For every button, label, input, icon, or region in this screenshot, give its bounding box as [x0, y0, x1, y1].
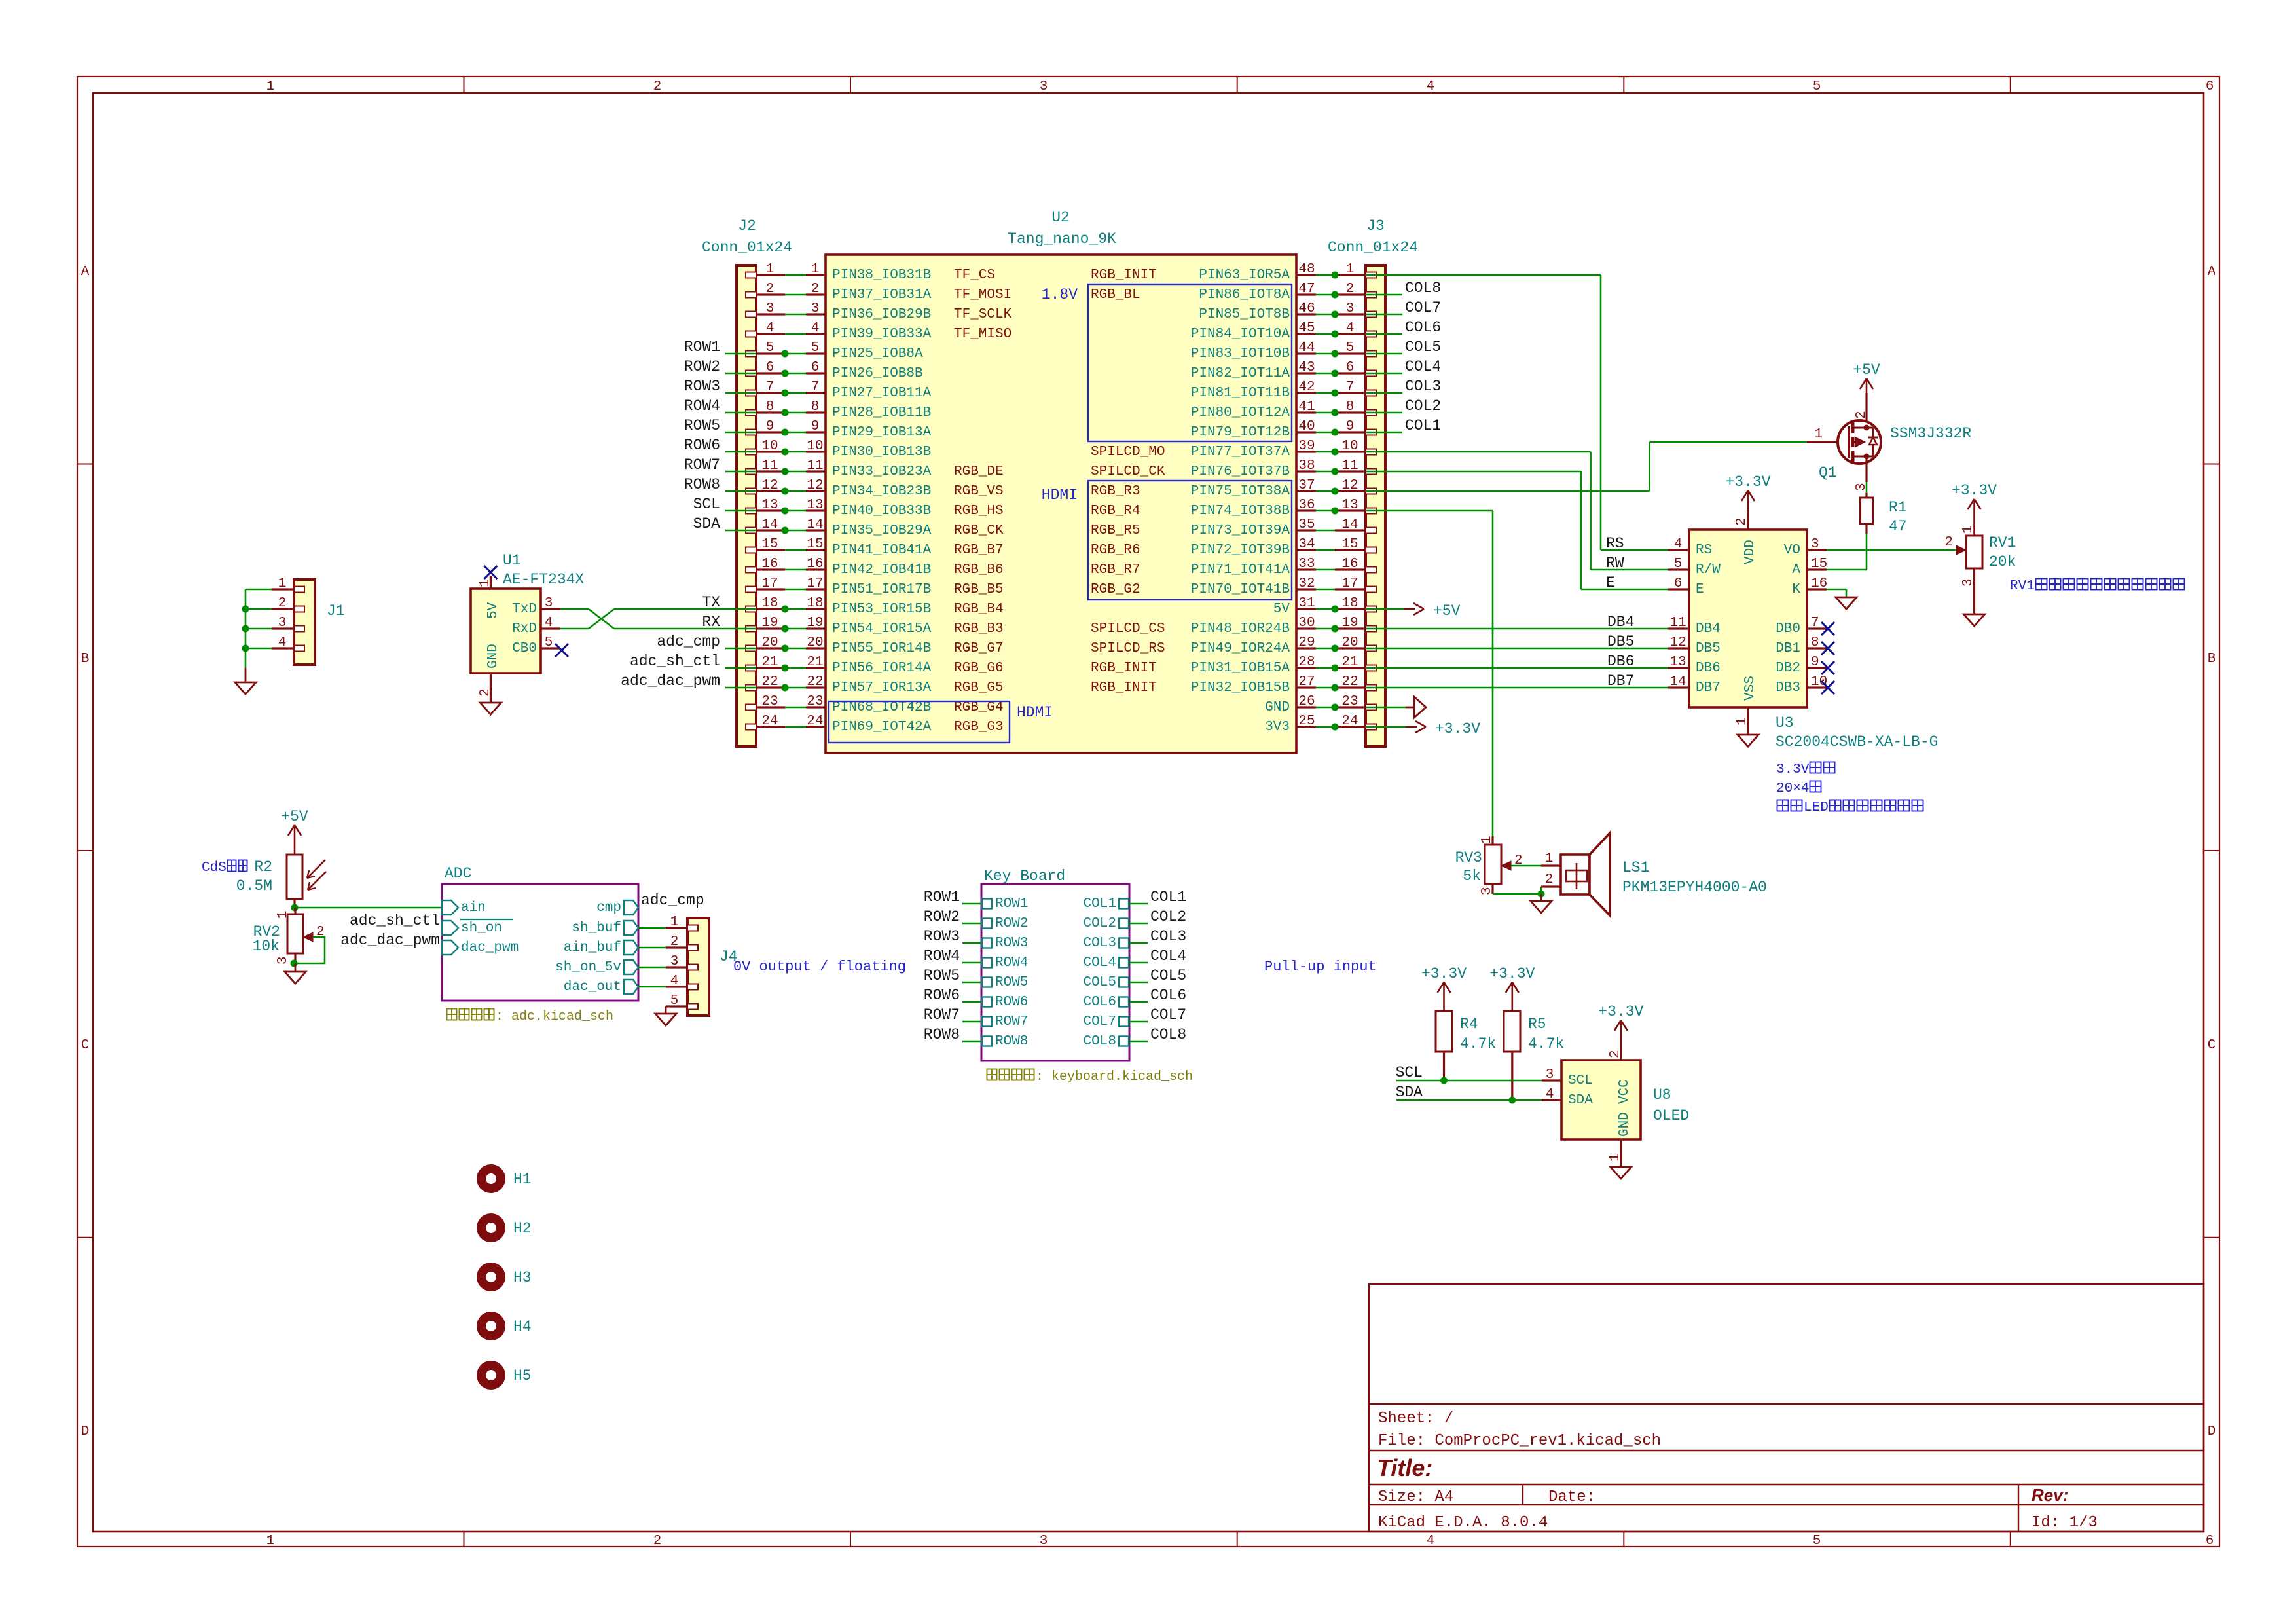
J2 pin 18 socket: [746, 606, 756, 612]
U2 pin 16: [806, 557, 826, 572]
svg-text:CB0: CB0: [512, 641, 537, 656]
wire adc_cmp to J2 pin 20 / U2: [725, 648, 806, 650]
J2 pin 17: [756, 576, 785, 591]
svg-text:RGB_DE: RGB_DE: [954, 464, 1004, 479]
svg-text:22: 22: [807, 674, 823, 690]
svg-text:ROW6: ROW6: [924, 987, 960, 1004]
svg-text:SPILCD_CK: SPILCD_CK: [1091, 464, 1165, 479]
no-connect U1 pin 5: [555, 644, 568, 657]
U2 pin 1: [806, 262, 826, 277]
U2 pin 8: [806, 399, 826, 415]
svg-text:14: 14: [807, 517, 823, 532]
svg-text:ROW2: ROW2: [995, 916, 1028, 931]
svg-text:TF_CS: TF_CS: [954, 268, 995, 283]
svg-text:2: 2: [766, 282, 774, 297]
svg-text:COL4: COL4: [1150, 948, 1186, 965]
svg-text:24: 24: [761, 714, 778, 729]
J3 pin 6 socket: [1366, 371, 1376, 377]
wire net E horizontal: [1581, 589, 1668, 591]
J1 pin 1: [272, 576, 304, 593]
svg-text:1: 1: [478, 579, 493, 587]
connector J2 body: [737, 265, 756, 747]
junction at J2 pin 11: [782, 468, 789, 475]
junction at J2 pin 8: [782, 409, 789, 416]
svg-text:DB7: DB7: [1696, 680, 1721, 695]
svg-text:Q1: Q1: [1819, 464, 1837, 481]
svg-text:20k: 20k: [1989, 553, 2016, 570]
svg-text:3: 3: [545, 596, 553, 611]
svg-text:11: 11: [1341, 458, 1358, 473]
svg-text:+5V: +5V: [281, 808, 308, 825]
svg-text:VO: VO: [1784, 543, 1800, 558]
power +5V at R2: [281, 808, 308, 855]
J2 pin 12 socket: [746, 489, 756, 494]
J3 pin 22: [1335, 674, 1366, 690]
ground at RV1: [1964, 614, 1985, 626]
junction at LS1 ground: [1538, 891, 1545, 898]
wire adc_sh_ctl to J2 pin 21 / U2: [725, 667, 806, 669]
svg-text:TX: TX: [702, 594, 720, 611]
svg-text:5: 5: [766, 341, 774, 356]
svg-text:21: 21: [807, 655, 823, 670]
svg-text:VCC: VCC: [1617, 1079, 1632, 1104]
svg-text:44: 44: [1298, 341, 1315, 356]
svg-text:COL1: COL1: [1084, 896, 1116, 912]
IC U8 OLED body: [1561, 1060, 1641, 1139]
svg-text:U8: U8: [1653, 1086, 1671, 1103]
U2 pin 17: [806, 576, 826, 591]
junction at J2 pin 12: [782, 488, 789, 495]
J3 pin 7: [1335, 380, 1366, 395]
svg-text:R2: R2: [254, 858, 272, 876]
J3 pin 5: [1335, 341, 1366, 356]
wire U2 pin 38 through J3 pin 11: [1316, 471, 1581, 473]
svg-text:22: 22: [761, 674, 778, 690]
svg-text:adc_sh_ctl: adc_sh_ctl: [630, 653, 720, 670]
svg-text:16: 16: [807, 557, 823, 572]
svg-text:DB3: DB3: [1776, 680, 1800, 695]
svg-text:PIN53_IOR15B: PIN53_IOR15B: [832, 602, 931, 617]
J3 pin 17 socket: [1366, 587, 1376, 593]
Key Board sheet pin ROW1: [982, 896, 1028, 912]
J3 pin 4 socket: [1366, 331, 1376, 337]
svg-text:3V3: 3V3: [1265, 720, 1290, 735]
U3 pin 16 K: [1792, 576, 1827, 597]
wire U2 pin 47 through J3 pin 2: [1316, 294, 1402, 296]
svg-text:45: 45: [1298, 321, 1315, 336]
wire SCL: [1396, 1080, 1542, 1082]
J2 pin 5: [756, 341, 785, 356]
svg-text:J2: J2: [738, 217, 756, 234]
U2 pin 33: [1296, 557, 1316, 572]
ground at LS1: [1531, 894, 1552, 913]
svg-text:3: 3: [1546, 1067, 1554, 1082]
svg-text:GND: GND: [1265, 700, 1290, 715]
svg-text:34: 34: [1298, 537, 1315, 552]
svg-text:1: 1: [1545, 851, 1554, 866]
svg-text:RGB_B6: RGB_B6: [954, 563, 1004, 578]
U1 pin 4 RxD: [512, 616, 560, 637]
svg-text:H2: H2: [513, 1220, 532, 1237]
U2 pin 23: [806, 694, 826, 709]
wire U2 pin 28 through J3 pin 21: [1316, 667, 1668, 669]
text box 1.8V group: [1088, 284, 1292, 441]
svg-text:2: 2: [653, 79, 662, 94]
note RV1 blue text: [2010, 579, 2185, 595]
U2 pin 18: [806, 596, 826, 611]
svg-text:28: 28: [1298, 655, 1315, 670]
svg-text:Id: 1/3: Id: 1/3: [2032, 1514, 2098, 1532]
U2 pin 38: [1296, 458, 1316, 473]
J1 pin 4: [272, 635, 304, 652]
wire J2 pin 2 to U2: [785, 294, 806, 296]
svg-text:Sheet: /: Sheet: /: [1378, 1410, 1453, 1428]
junction at J3 pin 24: [1332, 724, 1339, 731]
svg-text:RV3: RV3: [1455, 849, 1482, 866]
svg-text:3: 3: [278, 616, 287, 631]
svg-text:sh_buf: sh_buf: [572, 921, 621, 936]
U2 pin 39: [1296, 439, 1316, 454]
wire net RW horizontal: [1591, 569, 1668, 571]
U1 pin 5 CB0: [512, 635, 560, 656]
J2 pin 5 socket: [746, 351, 756, 357]
wire U2 pin 33 to J3 pin 16: [1316, 569, 1335, 571]
svg-text:U1: U1: [503, 552, 521, 569]
ADC sheet pin ain: [442, 900, 486, 915]
svg-text:PIN29_IOB13A: PIN29_IOB13A: [832, 425, 932, 440]
svg-text:AE-FT234X: AE-FT234X: [503, 571, 584, 588]
J2 pin 6 socket: [746, 371, 756, 377]
junction at J3 pin 19: [1332, 625, 1339, 633]
wire ADC to J4 pin 1: [638, 927, 666, 929]
svg-text:14: 14: [1669, 674, 1686, 690]
junction at J3 pin 2: [1332, 291, 1339, 299]
power +3.3V at J3 pin 24: [1406, 720, 1480, 737]
svg-text:PIN49_IOR24A: PIN49_IOR24A: [1191, 641, 1290, 656]
svg-text:PIN70_IOT41B: PIN70_IOT41B: [1191, 582, 1290, 597]
svg-text:PIN48_IOR24B: PIN48_IOR24B: [1191, 621, 1290, 637]
svg-text:10k: 10k: [253, 938, 280, 955]
U3 pin 9 DB2: [1776, 655, 1827, 676]
U2 pin 9: [806, 419, 826, 434]
J2 pin 9: [756, 419, 785, 434]
U2 pin 12: [806, 478, 826, 493]
Q1 reference: [1819, 425, 1971, 481]
svg-text:+5V: +5V: [1853, 361, 1880, 378]
ground at J4 pin 5: [655, 1006, 676, 1025]
wire U2 pin 35 to J3 pin 14: [1316, 530, 1335, 532]
svg-text:H4: H4: [513, 1318, 532, 1335]
svg-text:PIN73_IOT39A: PIN73_IOT39A: [1191, 523, 1290, 538]
svg-text:40: 40: [1298, 419, 1315, 434]
wire ROW6 to J2 pin 10 / U2: [725, 451, 806, 453]
svg-text:2: 2: [278, 596, 287, 611]
svg-text:E: E: [1696, 582, 1704, 597]
junction at J3 pin 10: [1332, 449, 1339, 456]
junction at J3 pin 3: [1332, 311, 1339, 318]
svg-text:20×4: 20×4: [1776, 781, 1809, 796]
svg-text:3: 3: [1040, 79, 1048, 94]
svg-text:PIN34_IOB23B: PIN34_IOB23B: [832, 484, 931, 499]
svg-text:4: 4: [1674, 537, 1683, 552]
svg-text:PIN36_IOB29B: PIN36_IOB29B: [832, 307, 931, 322]
U2 pin 44: [1296, 341, 1316, 356]
svg-text:RV1: RV1: [2010, 579, 2035, 594]
svg-text:COL6: COL6: [1405, 319, 1441, 336]
svg-text:ROW3: ROW3: [924, 928, 960, 945]
ground at J3 pin 23: [1406, 697, 1426, 718]
svg-text:COL6: COL6: [1084, 995, 1116, 1010]
junction at J3 pin 21: [1332, 665, 1339, 672]
svg-text:COL5: COL5: [1405, 339, 1441, 356]
Key Board sheet pin COL3: [1084, 936, 1129, 951]
no-connect U3 DB1: [1821, 642, 1834, 655]
svg-text:RGB_G4: RGB_G4: [954, 700, 1004, 715]
svg-text:dac_out: dac_out: [564, 980, 621, 995]
svg-text:KiCad E.D.A. 8.0.4: KiCad E.D.A. 8.0.4: [1378, 1514, 1548, 1532]
J3 pin 24: [1335, 714, 1366, 729]
svg-text:RGB_B3: RGB_B3: [954, 621, 1004, 637]
svg-text:PIN41_IOB41A: PIN41_IOB41A: [832, 543, 932, 558]
svg-text:DB2: DB2: [1776, 661, 1800, 676]
wire ROW4 to J2 pin 8 / U2: [725, 412, 806, 414]
svg-text:12: 12: [1669, 635, 1686, 650]
power +3.3V at R5: [1489, 965, 1535, 1011]
svg-text:R1: R1: [1889, 499, 1907, 516]
wire RV2 wiper loop: [294, 937, 325, 963]
svg-text:23: 23: [1341, 694, 1358, 709]
svg-text:1: 1: [278, 576, 287, 591]
svg-text:Tang_nano_9K: Tang_nano_9K: [1008, 231, 1116, 248]
wire R1 to LCD A: [1866, 534, 1868, 570]
J2 pin 22: [756, 674, 785, 690]
U8 pin 3 SCL: [1542, 1067, 1593, 1088]
wire ROW3 stub: [962, 942, 981, 944]
wire J2 pin 24 to U2: [785, 726, 806, 728]
wire net to RV3 vertical: [1492, 511, 1494, 836]
U3 pin 13 DB6: [1668, 655, 1721, 676]
no-connect U1 pin 1: [484, 566, 497, 579]
svg-text:16: 16: [1341, 557, 1358, 572]
wire net RW vertical: [1590, 452, 1592, 570]
no-connect U3 DB2: [1821, 661, 1834, 674]
svg-text:RGB_R5: RGB_R5: [1091, 523, 1140, 538]
svg-text:4: 4: [1427, 79, 1435, 94]
J3 pin 14 socket: [1366, 528, 1376, 534]
svg-text:36: 36: [1298, 498, 1315, 513]
J2 pin 16 socket: [746, 567, 756, 573]
Key Board sheet pin COL2: [1084, 916, 1129, 931]
U2 pin 47: [1296, 282, 1316, 297]
svg-text:R5: R5: [1528, 1016, 1546, 1033]
svg-text:27: 27: [1298, 674, 1315, 690]
J3 pin 23: [1335, 694, 1366, 709]
svg-text:File: ComProcPC_rev1.kicad_sch: File: ComProcPC_rev1.kicad_sch: [1378, 1432, 1661, 1450]
ground at RV2: [285, 963, 306, 984]
svg-text:ROW5: ROW5: [924, 967, 960, 984]
svg-text:H3: H3: [513, 1269, 532, 1286]
svg-text:RGB_BL: RGB_BL: [1091, 287, 1140, 303]
svg-text:PIN82_IOT11A: PIN82_IOT11A: [1191, 366, 1290, 381]
svg-text:10: 10: [1341, 439, 1358, 454]
svg-text:6: 6: [2206, 1534, 2214, 1549]
wire ADC to J4 pin 4: [638, 986, 666, 988]
svg-text:4: 4: [811, 321, 820, 336]
junction at J2 pin 13: [782, 507, 789, 515]
svg-text:11: 11: [807, 458, 823, 473]
Key Board sheet pin ROW6: [982, 995, 1028, 1010]
svg-text:PIN31_IOB15A: PIN31_IOB15A: [1191, 661, 1290, 676]
svg-text:SPILCD_CS: SPILCD_CS: [1091, 621, 1165, 637]
svg-text:4: 4: [545, 616, 553, 631]
svg-text:C: C: [81, 1038, 90, 1053]
IC U1 AE-FT234X body: [471, 589, 541, 673]
svg-text:sh_on: sh_on: [461, 921, 502, 936]
ADC sheet pin cmp: [596, 900, 638, 915]
power +3.3V at R4: [1421, 965, 1467, 1011]
U2 pin 35: [1296, 517, 1316, 532]
junction J1 pin 2: [242, 606, 249, 613]
svg-text:HDMI: HDMI: [1042, 487, 1078, 504]
svg-text:PIN68_IOT42B: PIN68_IOT42B: [832, 700, 931, 715]
svg-text:46: 46: [1298, 301, 1315, 316]
svg-text:adc_cmp: adc_cmp: [641, 892, 704, 909]
svg-text:PIN35_IOB29A: PIN35_IOB29A: [832, 523, 932, 538]
wire U2 pin 27 through J3 pin 22: [1316, 687, 1668, 689]
svg-text:1: 1: [1346, 262, 1355, 277]
svg-text:RGB_G3: RGB_G3: [954, 720, 1004, 735]
svg-text:18: 18: [1341, 596, 1358, 611]
svg-text:41: 41: [1298, 399, 1315, 415]
U1 pin 1 5V: [478, 576, 501, 619]
svg-text:1: 1: [1735, 717, 1750, 726]
Key Board sheet pin COL6: [1084, 995, 1129, 1010]
svg-text:PIN79_IOT12B: PIN79_IOT12B: [1191, 425, 1290, 440]
svg-text:20: 20: [807, 635, 823, 650]
svg-text:COL7: COL7: [1405, 299, 1441, 316]
U2 pin 36: [1296, 498, 1316, 513]
svg-text:U2: U2: [1051, 209, 1070, 226]
potentiometer RV1 20k: [1944, 525, 2016, 614]
J3 pin 10 socket: [1366, 449, 1376, 455]
J3 pin 14: [1335, 517, 1366, 532]
U2 pin 11: [806, 458, 826, 473]
svg-text:ain_buf: ain_buf: [564, 940, 621, 955]
svg-text:1.8V: 1.8V: [1042, 286, 1078, 303]
J3 pin 1 socket: [1366, 272, 1376, 278]
U2 pin 6: [806, 360, 826, 375]
svg-text:DB5: DB5: [1696, 641, 1721, 656]
J3 pin 24 socket: [1366, 724, 1376, 730]
connector J3 reference: [1328, 217, 1418, 256]
svg-text:15: 15: [1811, 557, 1827, 572]
svg-text:PIN32_IOB15B: PIN32_IOB15B: [1191, 680, 1290, 695]
svg-text:J3: J3: [1366, 217, 1385, 234]
svg-text:19: 19: [1341, 616, 1358, 631]
J4 pin 1: [666, 915, 698, 931]
svg-text:Conn_01x24: Conn_01x24: [702, 239, 792, 256]
svg-text:COL7: COL7: [1150, 1006, 1186, 1024]
wire U2 pin 42 through J3 pin 7: [1316, 392, 1402, 394]
wire RX to J2 pin 19 / U2: [614, 628, 806, 630]
svg-text:DB4: DB4: [1696, 621, 1721, 637]
U1 pin 2 GND: [478, 644, 501, 703]
mounting hole H4: [477, 1312, 532, 1340]
junction SCL R4: [1440, 1077, 1448, 1084]
svg-text:3: 3: [1040, 1534, 1048, 1549]
svg-text:ROW8: ROW8: [924, 1026, 960, 1043]
U1 reference: [503, 552, 584, 588]
svg-text:ROW3: ROW3: [995, 936, 1028, 951]
J2 pin 20: [756, 635, 785, 650]
svg-text:COL2: COL2: [1405, 397, 1441, 415]
svg-text:3: 3: [276, 956, 291, 965]
svg-text:43: 43: [1298, 360, 1315, 375]
svg-text:13: 13: [1669, 655, 1686, 670]
wire COL1 stub: [1129, 903, 1148, 905]
svg-text:HDMI: HDMI: [1017, 704, 1053, 721]
svg-text:Size: A4: Size: A4: [1378, 1488, 1453, 1506]
labels TX RX: [702, 594, 720, 631]
U2 pin 15: [806, 537, 826, 552]
junction R2 RV2: [291, 904, 299, 912]
J2 pin 8 socket: [746, 410, 756, 416]
J2 pin 3: [756, 301, 785, 316]
svg-text:2: 2: [1734, 517, 1749, 526]
J3 pin 3 socket: [1366, 312, 1376, 318]
svg-text:20: 20: [1341, 635, 1358, 650]
J2 pin 2: [756, 282, 785, 297]
mounting hole H1: [477, 1164, 532, 1193]
svg-text:2: 2: [653, 1534, 662, 1549]
svg-text:30: 30: [1298, 616, 1315, 631]
title block: [1369, 1284, 2204, 1532]
svg-text:SPILCD_MO: SPILCD_MO: [1091, 445, 1165, 460]
connector J4 body: [687, 918, 709, 1016]
Key Board sheet pin ROW4: [982, 955, 1028, 970]
svg-text:+3.3V: +3.3V: [1725, 473, 1770, 490]
svg-text:COL3: COL3: [1084, 936, 1116, 951]
wire U2 pin 25 through J3 pin 24: [1316, 726, 1406, 728]
svg-text:ROW8: ROW8: [995, 1034, 1028, 1049]
svg-text:RGB_HS: RGB_HS: [954, 504, 1004, 519]
svg-text:PIN33_IOB23A: PIN33_IOB23A: [832, 464, 932, 479]
svg-text:10: 10: [807, 439, 823, 454]
svg-text:SDA: SDA: [1396, 1084, 1423, 1101]
U2 pin 37: [1296, 478, 1316, 493]
J2 pin 19: [756, 616, 785, 631]
svg-text:5: 5: [1813, 1534, 1821, 1549]
svg-text:3: 3: [1961, 578, 1976, 587]
J2 pin 7 socket: [746, 390, 756, 396]
wire ADC to J4 pin 3: [638, 967, 666, 969]
svg-text:DB4: DB4: [1607, 614, 1634, 631]
U3 pin 4 RS: [1668, 537, 1712, 558]
svg-text:PIN26_IOB8B: PIN26_IOB8B: [832, 366, 923, 381]
svg-text:PIN55_IOR14B: PIN55_IOR14B: [832, 641, 931, 656]
J2 pin 1 socket: [746, 272, 756, 278]
svg-text:12: 12: [761, 478, 778, 493]
svg-text:+3.3V: +3.3V: [1421, 965, 1467, 982]
wire adc_dac_pwm to J2 pin 22 / U2: [725, 687, 806, 689]
svg-text:ROW5: ROW5: [684, 417, 720, 434]
U8 pin 2 VCC: [1608, 1050, 1632, 1104]
junction at J2 pin 6: [782, 370, 789, 377]
U2 pin 4: [806, 321, 826, 336]
U3 note texts: [1776, 762, 1923, 816]
sheet file adc.kicad_sch: [447, 1009, 614, 1025]
transistor Q1 SSM3J332R: [1807, 393, 1881, 491]
